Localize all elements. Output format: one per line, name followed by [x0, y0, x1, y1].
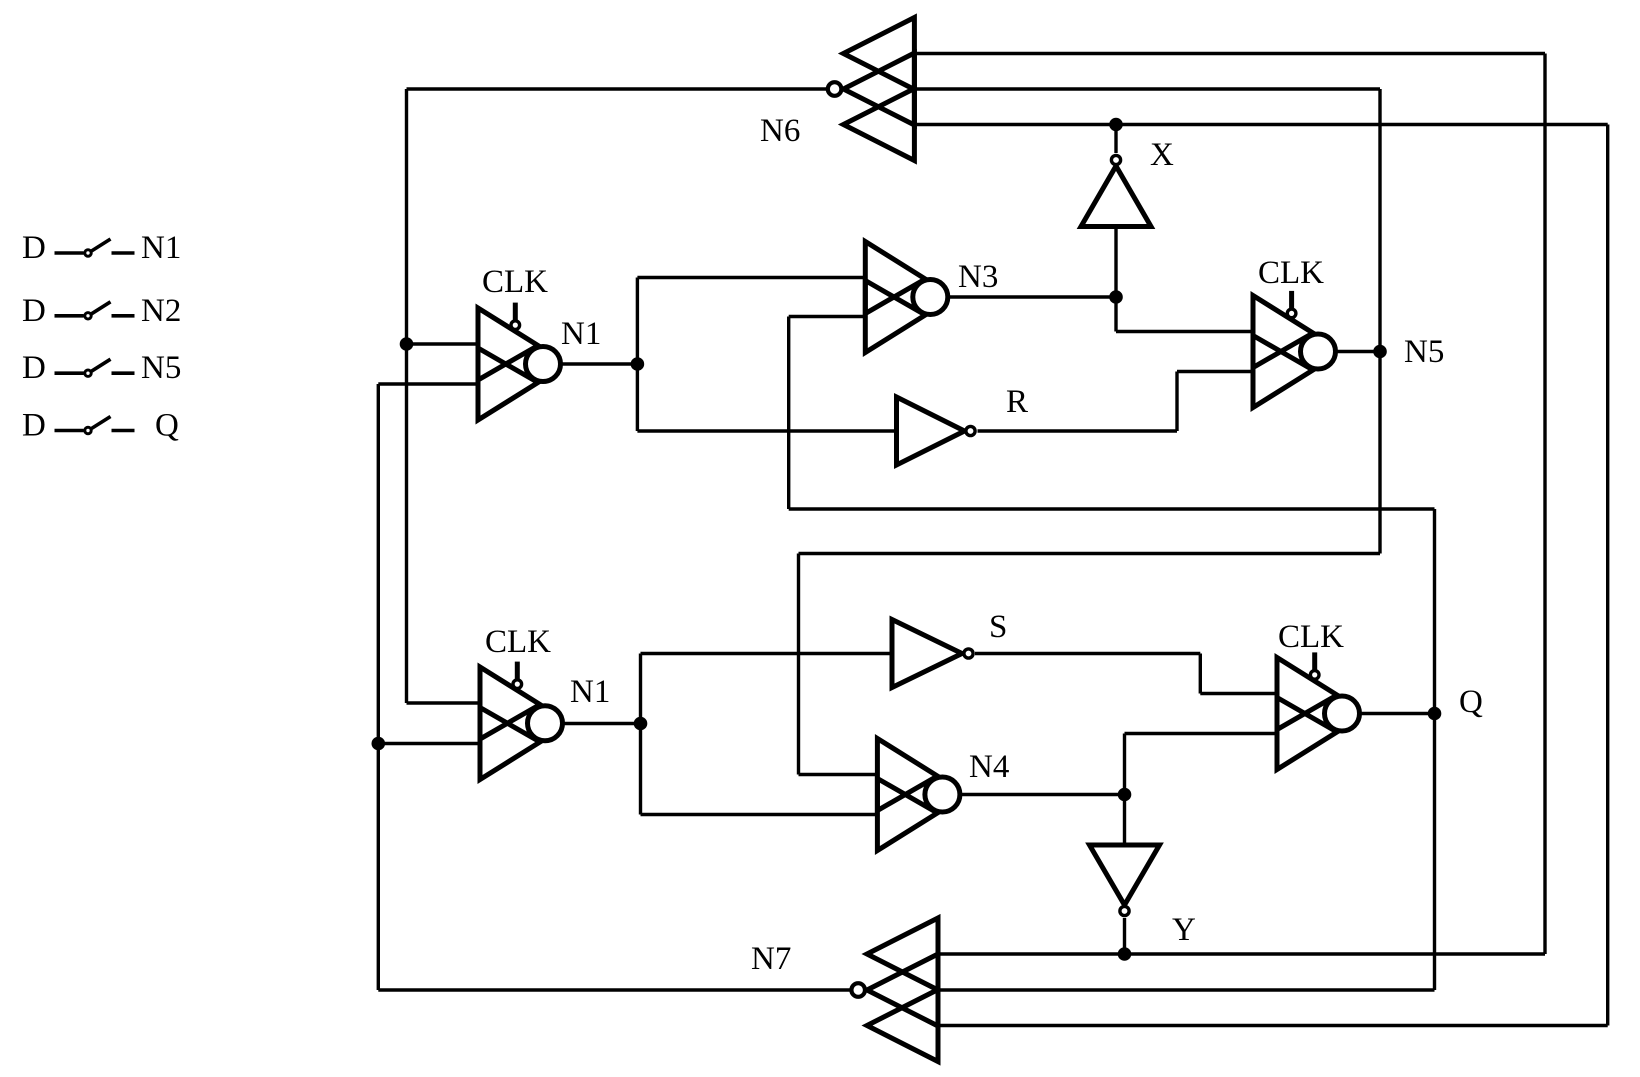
- svg-text:D: D: [22, 350, 46, 386]
- inverter S bubble: [964, 649, 973, 658]
- wire into lower N1 inverter lower input: [378, 742, 480, 745]
- inverter N3 lower triangle: [865, 281, 925, 353]
- tri-state element N7 triangle 3: [867, 990, 938, 1062]
- wire node N4 to Q clocked-inverter lower input: [1125, 732, 1278, 735]
- wire right outer vertical (Y net): [1543, 54, 1546, 955]
- wire into lower N1 inverter upper input: [407, 701, 481, 704]
- wire lower N1 output to node N1b: [563, 722, 641, 725]
- switch D-N2 output wire: [112, 314, 135, 318]
- clocked inverter Q (output stage) output circle: [1325, 696, 1360, 731]
- inverter Y triangle (points down): [1090, 845, 1160, 905]
- inverter N3 upper triangle: [865, 242, 925, 314]
- switch D-N2 input wire: [55, 314, 84, 318]
- switch D-N1 output wire: [112, 251, 135, 255]
- clocked inverter N5 upper triangle: [1253, 296, 1313, 368]
- wire left column vertical (N6 out to both N1 clocked-inverter upper inputs): [405, 89, 408, 703]
- switch D-N5 pivot circle: [85, 370, 91, 376]
- tri-state element N7 triangle 1: [867, 918, 938, 990]
- wire N3 output step down: [1114, 297, 1117, 332]
- wire S output to Q clocked-inverter upper input: [1200, 692, 1277, 695]
- wire node N1 vertical branch: [636, 278, 639, 432]
- clocked inverter N1 (upper, master) lower triangle: [478, 348, 538, 420]
- svg-text:X: X: [1150, 137, 1174, 173]
- switch D-Q pivot circle: [85, 427, 91, 433]
- switch D-N5 output wire: [112, 371, 135, 375]
- wire node Q feedback up to N3: [787, 317, 790, 510]
- tri-state element N7 triangle 2: [867, 954, 938, 1026]
- svg-text:CLK: CLK: [1278, 619, 1344, 655]
- tri-state element N6 triangle 3: [843, 89, 914, 161]
- switch D-Q arm: [92, 417, 111, 429]
- inverter X triangle (points up): [1081, 166, 1151, 227]
- svg-text:N1: N1: [570, 674, 610, 710]
- wire into N3 lower input: [789, 315, 866, 318]
- junction node at Y inverter output on N7 input wire: [1118, 947, 1132, 961]
- wire node N1 to R input: [637, 429, 896, 432]
- wire node N5 vertical: [1378, 89, 1381, 554]
- tri-state element N6 input bubble: [828, 82, 842, 96]
- svg-text:R: R: [1006, 384, 1028, 420]
- switch D-N1 arm: [92, 239, 111, 251]
- svg-text:S: S: [989, 609, 1007, 645]
- inverter N4 upper triangle: [877, 739, 937, 811]
- clocked inverter N1 (upper, master) CLK pin stem: [513, 303, 518, 321]
- wire into upper N1 inverter lower input: [378, 382, 478, 385]
- wire into upper N1 inverter upper input: [407, 342, 479, 345]
- junction node N5: [1373, 345, 1387, 359]
- wire N7 middle input from node Q: [938, 988, 1435, 991]
- clocked inverter N1 (lower, slave) lower triangle: [480, 708, 540, 780]
- junction node N1 (lower latch internal): [634, 717, 648, 731]
- wire far right vertical (X net): [1606, 125, 1609, 1026]
- wire second left column vertical (N7 out to both N1 lower inputs): [377, 384, 380, 990]
- wire node N1 to N3 upper input: [637, 276, 865, 279]
- wire N6 bottom input (X net): [914, 123, 1607, 126]
- svg-text:Q: Q: [1459, 684, 1483, 720]
- svg-text:N3: N3: [958, 259, 998, 295]
- switch D-N5 input wire: [55, 371, 84, 375]
- clocked inverter N1 (lower, slave) CLK bubble: [513, 680, 522, 689]
- clocked inverter Q (output stage) CLK bubble: [1310, 671, 1319, 680]
- wire X inverter output: [1114, 125, 1117, 154]
- switch D-Q output wire: [112, 429, 135, 433]
- svg-text:N5: N5: [1404, 334, 1444, 370]
- switch D-N2 pivot circle: [85, 313, 91, 319]
- wire node N4 up step: [1123, 734, 1126, 795]
- wire N7 top input (Y net): [938, 952, 1545, 955]
- wire N4 output to node N4: [960, 793, 1125, 796]
- clocked inverter N5 output circle: [1301, 334, 1336, 369]
- junction node on N1 upper-input branch: [400, 337, 414, 351]
- clocked inverter Q (output stage) CLK pin stem: [1312, 652, 1317, 670]
- wire node N5 horizontal to lower latch: [799, 552, 1381, 555]
- wire N3 output to node X junction: [948, 295, 1116, 298]
- svg-text:N4: N4: [969, 749, 1009, 785]
- wire upper N1 output to node N1: [561, 362, 638, 365]
- inverter R bubble: [966, 426, 975, 435]
- wire node Q feedback horizontal: [789, 507, 1435, 510]
- inverter N4 lower triangle: [877, 779, 937, 851]
- wire N6 top input: [914, 52, 1545, 55]
- svg-text:D: D: [22, 230, 46, 266]
- wire into N4 upper input: [799, 773, 878, 776]
- wire N3 output to N5 upper input: [1116, 330, 1253, 333]
- wire R output to N5 lower input: [1177, 370, 1253, 373]
- tri-state element N6 triangle 1: [843, 18, 914, 90]
- wire X inverter input: [1114, 227, 1117, 298]
- junction node N4: [1118, 788, 1132, 802]
- clocked inverter N1 (lower, slave) CLK pin stem: [515, 662, 520, 680]
- wire R output: [978, 429, 1178, 432]
- svg-text:N6: N6: [760, 113, 800, 149]
- wire node N1b to N4 lower input: [641, 813, 878, 816]
- wire S output: [975, 652, 1200, 655]
- svg-text:N1: N1: [561, 316, 601, 352]
- switch D-N5 arm: [92, 359, 111, 371]
- inverter X bubble: [1111, 155, 1120, 164]
- clocked inverter N1 (lower, slave) output circle: [528, 706, 563, 741]
- svg-text:N7: N7: [751, 941, 791, 977]
- junction node at X inverter output on N6-N7 X net: [1109, 118, 1123, 132]
- switch D-N1 input wire: [55, 251, 84, 255]
- wire R output step up: [1175, 372, 1178, 432]
- wire node N1b to S input: [641, 652, 893, 655]
- clocked inverter Q (output stage) upper triangle: [1277, 658, 1337, 730]
- clocked inverter N1 (lower, slave) upper triangle: [480, 667, 540, 739]
- svg-text:D: D: [22, 408, 46, 444]
- clocked inverter N5 CLK bubble: [1287, 309, 1296, 318]
- wire Q clocked-inverter output to node Q: [1360, 712, 1435, 715]
- wire N6 middle input from node N5: [914, 87, 1380, 90]
- junction node Q: [1428, 707, 1442, 721]
- junction node at N3 output / X inverter input: [1109, 290, 1123, 304]
- wire node N5 down to N4 upper input: [797, 554, 800, 775]
- clocked inverter N5 CLK pin stem: [1289, 291, 1294, 309]
- switch D-N2 arm: [92, 302, 111, 314]
- tri-state element N7 input bubble: [851, 983, 865, 997]
- wire Y inverter output to N7 input wire: [1123, 918, 1126, 954]
- switch D-N1 pivot circle: [85, 250, 91, 256]
- svg-text:Y: Y: [1172, 912, 1196, 948]
- junction node N1 (upper latch internal): [631, 357, 645, 371]
- wire N7 bubble to left column: [378, 988, 851, 991]
- tri-state element N6 triangle 2: [843, 53, 914, 125]
- wire node N4 down to Y inverter input: [1123, 795, 1126, 846]
- svg-text:CLK: CLK: [485, 624, 551, 660]
- svg-text:Q: Q: [155, 408, 179, 444]
- svg-text:N5: N5: [141, 350, 181, 386]
- clocked inverter Q (output stage) lower triangle: [1277, 698, 1337, 770]
- clocked inverter N5 lower triangle: [1253, 336, 1313, 408]
- wire N6 output to left column: [407, 87, 827, 90]
- wire node Q right vertical: [1433, 509, 1436, 990]
- svg-text:D: D: [22, 293, 46, 329]
- wire N5 output to node N5: [1336, 350, 1381, 353]
- inverter Y bubble: [1120, 906, 1129, 915]
- switch D-Q input wire: [55, 429, 84, 433]
- junction node on N1 lower-input branch: [372, 737, 386, 751]
- inverter N3 output circle: [913, 280, 948, 315]
- svg-text:CLK: CLK: [482, 264, 548, 300]
- wire node N1b vertical branch: [639, 654, 642, 815]
- svg-text:N1: N1: [141, 230, 181, 266]
- wire N7 bottom input (X net): [938, 1024, 1608, 1027]
- clocked inverter N1 (upper, master) upper triangle: [478, 308, 538, 380]
- svg-text:CLK: CLK: [1258, 255, 1324, 291]
- inverter N4 output circle: [925, 777, 960, 812]
- inverter R triangle: [897, 397, 965, 465]
- inverter S triangle: [892, 620, 962, 688]
- wire S output step down: [1199, 654, 1202, 694]
- svg-text:N2: N2: [141, 293, 181, 329]
- clocked inverter N1 (upper, master) CLK bubble: [511, 321, 520, 330]
- clocked inverter N1 (upper, master) output circle: [526, 347, 561, 382]
